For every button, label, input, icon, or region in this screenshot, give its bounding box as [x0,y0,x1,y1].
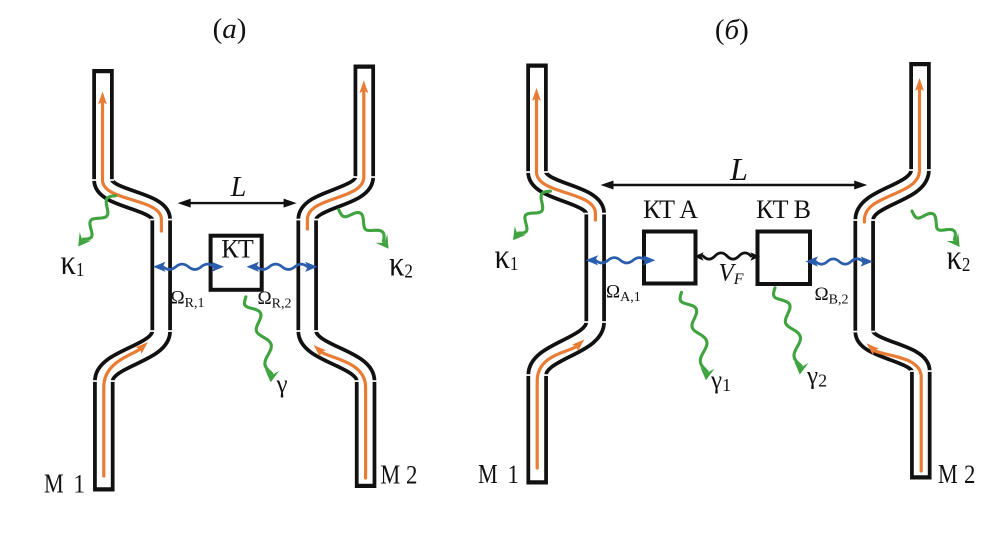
blue coupling arrow Omega_R,1 (a-left waveguide to KT) [153,262,224,272]
waveguide a-right (M2): channel interior [307,69,365,484]
svg-text:КТ: КТ [221,235,254,264]
svg-text:М: М [381,461,401,491]
green decay arrow gamma_1 (panel b, from KT A) [680,292,715,380]
green decay arrow kappa_1 (panel b) [513,191,550,240]
green decay arrow gamma_2 (panel b, from KT B) [774,288,809,375]
waveguide b-left (M1): outer walls [537,64,595,485]
orange arrow: b-right input beam [867,343,922,471]
green decay arrow gamma (panel a, from KT) [244,297,279,383]
orange arrow: b-left input beam [537,339,584,468]
svg-text:М: М [478,460,498,490]
blue coupling arrow Omega_A,1 (b-left waveguide to KT A) [586,255,656,265]
orange arrow: a-left input beam [104,342,148,476]
label M 2 (panel a) [381,461,418,491]
svg-text:1: 1 [74,470,85,499]
orange arrow: b-right output beam [864,78,924,222]
label M 1 (panel a) [44,470,85,500]
green decay arrow kappa_2 (panel b) [912,211,960,247]
svg-text:γ: γ [276,371,288,398]
svg-text:L: L [230,172,247,203]
waveguide a-right (M2): segment joint gaps [353,176,375,178]
orange arrow: a-right input beam [314,345,366,478]
svg-text:2: 2 [964,461,975,490]
blue coupling arrow Omega_R,2 (KT to a-right waveguide) [247,262,318,272]
svg-text:(б): (б) [715,14,749,46]
svg-text:2: 2 [406,461,417,490]
label M 1 (panel b) [478,460,519,490]
dimension arrow L (panel a) [178,199,297,208]
svg-text:(а): (а) [213,13,247,45]
waveguide b-left (M1): channel interior [537,68,595,481]
waveguide a-left (M1): outer walls [103,69,161,492]
svg-text:КТ А: КТ А [643,195,698,224]
black coupling arrow V_F between KT A and KT B [694,252,760,261]
label M 2 (panel b) [938,460,975,490]
svg-text:М: М [938,460,958,490]
quantum dot KT A (panel b) [644,232,696,284]
waveguide b-right (M2): channel interior [864,66,921,475]
waveguide b-right (M2): outer walls [864,62,921,480]
quantum dot KT (panel a) [211,236,262,290]
waveguide a-right (M2): outer walls [307,65,365,489]
orange arrow: b-left output beam [532,88,595,220]
waveguide b-left (M1): segment joint gaps [526,171,548,173]
orange arrow: a-left output beam [98,92,161,232]
svg-text:L: L [729,151,748,187]
waveguide a-left (M1): segment joint gaps [92,179,114,181]
green decay arrow kappa_1 (panel a) [78,196,115,247]
green decay arrow kappa_2 (panel a) [339,210,389,249]
blue coupling arrow Omega_B,2 (KT B to b-right waveguide) [806,256,874,266]
svg-text:КТ В: КТ В [756,195,811,224]
svg-text:1: 1 [508,461,519,490]
orange arrow: a-right output beam [307,80,368,229]
quantum dot KT B (panel b) [758,232,811,285]
svg-text:М: М [44,470,64,500]
waveguide a-left (M1): channel interior [103,73,161,487]
dimension arrow L (panel b) [601,181,868,190]
waveguide b-right (M2): segment joint gaps [909,169,931,171]
